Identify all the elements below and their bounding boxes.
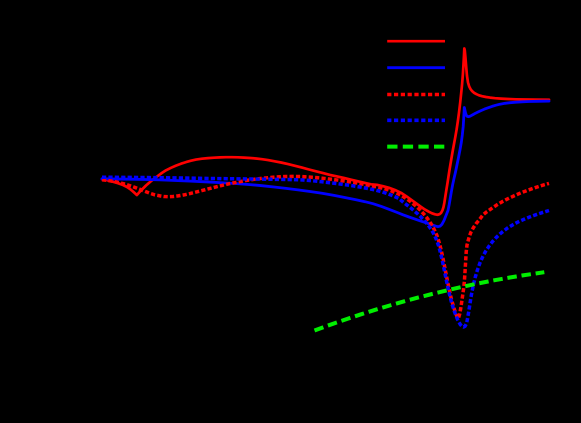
blue dotted curve (measurement) <box>102 177 549 327</box>
green dashed curve <box>315 272 545 330</box>
legend red solid sample <box>387 40 445 43</box>
legend blue solid sample <box>387 66 445 69</box>
legend red dotted sample <box>387 93 445 97</box>
red dotted curve (measurement) <box>102 176 549 318</box>
red solid curve (simulation) <box>102 49 549 215</box>
legend green dashed sample <box>387 145 445 149</box>
blue solid curve (simulation) <box>102 101 549 227</box>
legend blue dotted sample <box>387 119 445 123</box>
